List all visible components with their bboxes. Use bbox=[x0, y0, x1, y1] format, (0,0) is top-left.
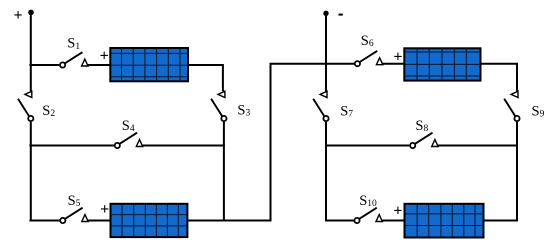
wire middle branch right to S8 bbox=[325, 145, 409, 147]
wire S6 to panel PV3 bbox=[382, 63, 405, 65]
wire left vertical top (dot to S2) bbox=[30, 11, 32, 91]
wire S10 to panel PV4 bbox=[382, 220, 405, 222]
switch S3 bbox=[211, 91, 226, 121]
switch S1 bbox=[60, 52, 88, 67]
switch S10 bbox=[354, 208, 382, 223]
wire S4 to right rail bbox=[142, 145, 225, 147]
wire panel PV4 to far right rail bbox=[483, 220, 518, 222]
svg-text:S5: S5 bbox=[68, 193, 81, 209]
switch S5 bbox=[60, 208, 88, 223]
wire far right rail bottom (S9 to bottom rail) bbox=[516, 122, 518, 222]
switch S2 bbox=[18, 91, 33, 121]
wire top branch from left rail to S1 bbox=[29, 64, 59, 66]
wire S8 to far right rail bbox=[438, 145, 518, 147]
wire S5 to panel PV2 bbox=[88, 220, 111, 222]
wire right rail bottom (S3 to bottom rail) bbox=[223, 122, 225, 222]
svg-text:+: + bbox=[393, 202, 402, 219]
switch S8 bbox=[410, 133, 438, 148]
svg-text:S2: S2 bbox=[42, 103, 55, 119]
wire panel PV3 to far right rail corner, down to S9 bbox=[480, 64, 517, 92]
node - (negative terminal label) bbox=[339, 14, 343, 16]
PV panel PV1 bbox=[110, 48, 188, 81]
wire right-left rail top (dot to S7, crosses S6 feed) bbox=[325, 13, 327, 91]
node A terminal dot bbox=[28, 10, 34, 16]
switch S6 bbox=[355, 51, 383, 66]
svg-text:S8: S8 bbox=[415, 118, 428, 134]
svg-text:S4: S4 bbox=[122, 118, 135, 134]
svg-text:+: + bbox=[14, 7, 23, 24]
svg-text:S10: S10 bbox=[359, 193, 377, 209]
PV panel PV3 bbox=[404, 48, 480, 80]
switch S7 bbox=[313, 91, 328, 121]
svg-text:S3: S3 bbox=[237, 103, 250, 119]
wire panel PV1 to right rail corner, down to S3 bbox=[188, 65, 223, 91]
svg-text:S6: S6 bbox=[361, 33, 374, 49]
wire left vertical bottom (S2 to bottom rail) bbox=[30, 122, 32, 222]
switch S9 bbox=[504, 91, 519, 121]
svg-text:+: + bbox=[100, 47, 109, 64]
svg-text:S7: S7 bbox=[340, 104, 353, 120]
svg-text:S9: S9 bbox=[532, 104, 545, 120]
svg-text:+: + bbox=[393, 48, 402, 65]
svg-text:S1: S1 bbox=[67, 36, 80, 52]
wire bottom rail left to S5 bbox=[29, 220, 59, 222]
wire panel PV2 to series riser, up and right to S6 branch bbox=[187, 64, 354, 221]
wire S1 to panel PV1 bbox=[88, 64, 111, 66]
svg-text:+: + bbox=[100, 201, 109, 218]
wire right-left rail bottom (S7 to bottom rail) bbox=[325, 122, 327, 222]
wire bottom rail right circuit to S10 bbox=[325, 220, 354, 222]
PV panel PV4 bbox=[405, 204, 484, 238]
switch S4 bbox=[115, 133, 143, 148]
PV panel PV2 bbox=[111, 204, 188, 237]
wire middle branch left to S4 bbox=[29, 145, 114, 147]
node B terminal dot bbox=[323, 11, 328, 16]
